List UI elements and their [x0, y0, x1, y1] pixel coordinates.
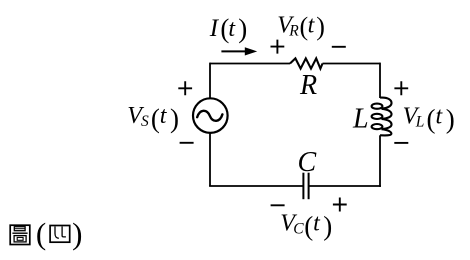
VL plus sign: [394, 81, 408, 95]
capacitor C plate right: [308, 173, 310, 200]
svg-text:I: I: [209, 15, 220, 42]
VC minus sign: [271, 204, 285, 206]
capacitor C plate left: [302, 173, 304, 200]
VC label VC(t): [280, 211, 332, 241]
svg-text:): ): [323, 211, 332, 241]
svg-text:C: C: [298, 147, 317, 178]
current label I(t): [209, 13, 248, 43]
wire bottom-left segment: [209, 185, 303, 187]
ac source VS circle: [193, 98, 228, 133]
VR label VR(t): [277, 12, 325, 41]
wire left lower segment: [209, 133, 211, 186]
source label VS(t): [127, 103, 179, 134]
svg-text:): ): [446, 104, 455, 134]
inductor L coil: [380, 98, 392, 109]
svg-text:): ): [72, 216, 82, 251]
source plus sign: [178, 81, 192, 95]
wire top-left segment: [210, 63, 290, 65]
svg-text:t: t: [308, 13, 316, 39]
wire top-right segment: [323, 63, 381, 65]
svg-text:(: (: [36, 216, 46, 251]
svg-text:): ): [170, 104, 179, 134]
svg-text:t: t: [160, 103, 168, 129]
svg-text:t: t: [313, 211, 321, 237]
svg-text:t: t: [228, 16, 236, 42]
svg-text:S: S: [141, 113, 149, 130]
wire bottom-right segment: [309, 185, 381, 187]
VC plus sign: [333, 198, 347, 212]
wire right upper segment: [379, 63, 381, 98]
VL minus sign: [394, 142, 408, 144]
VR plus sign: [271, 40, 285, 54]
svg-text:C: C: [293, 220, 304, 237]
svg-text:(: (: [304, 211, 313, 241]
svg-text:(: (: [151, 104, 160, 134]
resistor R zigzag: [290, 58, 323, 68]
wire left upper segment: [209, 63, 211, 99]
svg-text:): ): [316, 12, 325, 41]
svg-text:t: t: [436, 104, 444, 130]
svg-text:(: (: [427, 104, 436, 134]
VR minus sign: [332, 46, 346, 48]
VL label VL(t): [403, 104, 455, 134]
ac source sine symbol: [197, 111, 222, 121]
wire right lower segment: [379, 135, 381, 187]
svg-text:L: L: [352, 103, 369, 134]
figure caption glyph tu (圖): [10, 225, 30, 244]
current arrow: [221, 50, 246, 52]
svg-text:L: L: [415, 114, 425, 131]
svg-text:): ): [238, 13, 247, 43]
svg-text:R: R: [288, 22, 299, 39]
figure caption glyph si (四): [50, 226, 70, 243]
svg-text:R: R: [299, 70, 317, 101]
source minus sign: [180, 142, 194, 144]
